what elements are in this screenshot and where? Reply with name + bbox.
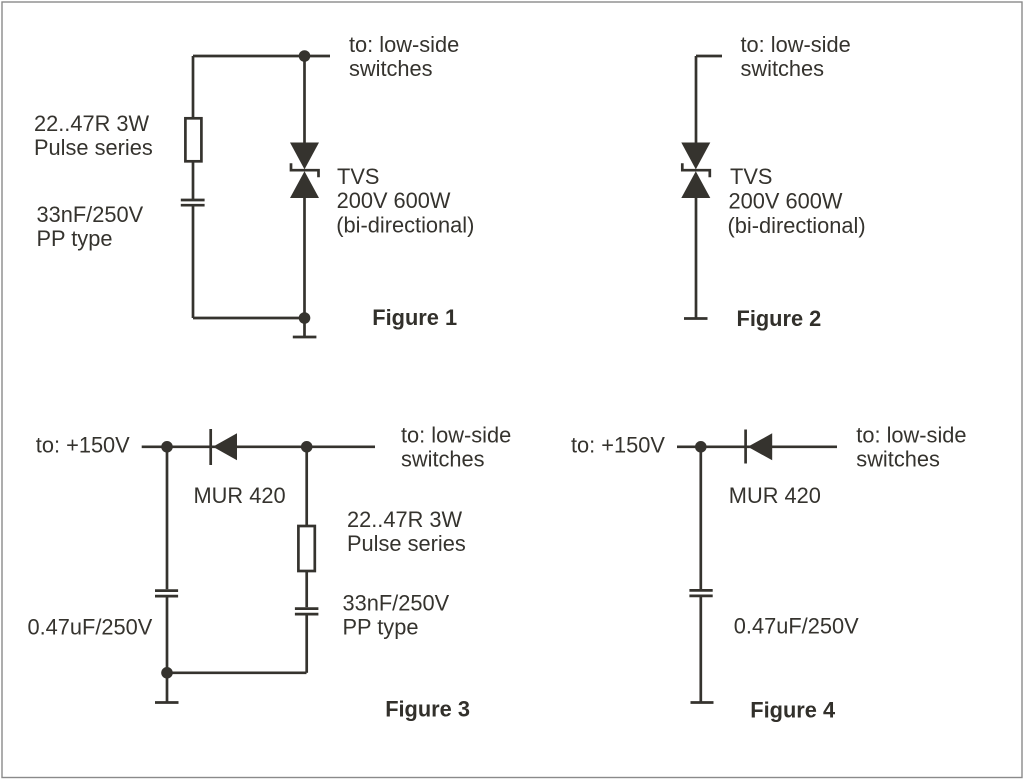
svg-text:TVS: TVS (337, 164, 379, 189)
node: Fig1 bottom junction (299, 312, 311, 324)
TVS D1 Z-bar (291, 163, 319, 177)
node: Fig4 junction (695, 441, 707, 453)
ground (Fig3) (155, 673, 179, 703)
wire: Fig2 TVS vertical bottom (695, 197, 698, 319)
svg-text:to: +150V: to: +150V (571, 432, 665, 457)
svg-text:Figure 2: Figure 2 (737, 306, 822, 331)
node: Fig3 right junction (301, 441, 313, 453)
wire: TVS branch vertical top (303, 56, 306, 144)
svg-text:switches: switches (856, 447, 940, 472)
wire: Fig1 bottom horizontal (193, 317, 305, 320)
svg-text:22..47R 3W: 22..47R 3W (34, 111, 150, 136)
wire: Fig1 left vertical (top) (192, 56, 195, 119)
svg-text:Figure 1: Figure 1 (372, 305, 457, 330)
capacitor 33nF/250V (Fig1) (181, 200, 205, 205)
TVS D1 top triangle (290, 143, 319, 170)
resistor 22..47R 3W (Fig1) (185, 118, 201, 161)
node: Fig1 top junction (299, 50, 311, 62)
capacitor 0.47uF/250V (Fig4) (689, 590, 712, 596)
TVS D1 bottom triangle (290, 171, 319, 198)
wire: capacitor to bottom wire (Fig3 right) (305, 615, 308, 672)
wire: TVS branch vertical bottom (303, 197, 306, 318)
svg-text:switches: switches (349, 56, 433, 81)
TVS D2 top triangle (681, 143, 710, 170)
wire: Fig4 main horizontal (677, 445, 837, 448)
svg-text:(bi-directional): (bi-directional) (728, 213, 866, 238)
svg-text:33nF/250V: 33nF/250V (343, 591, 450, 616)
ground (Fig2) (684, 317, 708, 320)
capacitor 0.47uF/250V (Fig3) (155, 591, 178, 597)
TVS D2 Z-bar (682, 163, 710, 177)
wire: resistor to capacitor (192, 161, 195, 199)
svg-text:to: low-side: to: low-side (401, 423, 511, 448)
svg-text:22..47R 3W: 22..47R 3W (347, 507, 463, 532)
wire: Fig3 right branch down (305, 447, 308, 526)
svg-text:to: low-side: to: low-side (741, 32, 851, 57)
svg-text:to: +150V: to: +150V (36, 432, 130, 457)
wire: capacitor to ground (Fig4) (699, 597, 702, 703)
svg-text:Figure 4: Figure 4 (750, 698, 835, 723)
svg-text:MUR 420: MUR 420 (729, 483, 821, 508)
wire: Fig2 top tick (696, 55, 722, 58)
svg-text:0.47uF/250V: 0.47uF/250V (734, 614, 859, 639)
diode MUR 420 (Fig3) cathode bar (209, 429, 212, 465)
wire: Fig2 TVS vertical top (695, 56, 698, 144)
svg-text:200V 600W: 200V 600W (729, 189, 843, 214)
wire: Fig1 top horizontal (193, 55, 330, 58)
svg-text:PP type: PP type (37, 226, 113, 251)
svg-text:(bi-directional): (bi-directional) (336, 213, 474, 238)
svg-text:0.47uF/250V: 0.47uF/250V (28, 615, 153, 640)
capacitor 33nF/250V (Fig3) (295, 609, 319, 615)
svg-text:to: low-side: to: low-side (349, 32, 459, 57)
diode MUR 420 (Fig4) triangle (748, 433, 772, 460)
node: Fig3 bottom junction (161, 667, 173, 679)
wire: Fig4 branch down (699, 447, 702, 589)
wire: Fig3 left branch down (166, 447, 169, 590)
svg-text:to: low-side: to: low-side (856, 423, 966, 448)
svg-text:200V 600W: 200V 600W (337, 188, 451, 213)
svg-text:TVS: TVS (730, 164, 772, 189)
ground (Fig4) (691, 701, 714, 704)
wire: resistor to capacitor (Fig3 right) (305, 571, 308, 607)
wire: Fig3 bottom horizontal (167, 671, 307, 674)
svg-text:Figure 3: Figure 3 (385, 696, 470, 721)
resistor 22..47R 3W (Fig3) (298, 526, 314, 571)
svg-text:Pulse series: Pulse series (347, 531, 466, 556)
svg-text:33nF/250V: 33nF/250V (37, 202, 144, 227)
wire: capacitor down to bottom (192, 207, 195, 319)
diode MUR 420 (Fig4) cathode bar (744, 430, 747, 464)
svg-text:switches: switches (401, 447, 485, 472)
wire: Fig3 main horizontal (142, 445, 375, 448)
svg-text:switches: switches (741, 56, 825, 81)
node: Fig3 +150V junction (161, 441, 173, 453)
svg-text:PP type: PP type (343, 615, 419, 640)
diode MUR 420 (Fig3) triangle (213, 433, 237, 460)
TVS D2 bottom triangle (681, 171, 710, 198)
svg-text:MUR 420: MUR 420 (194, 483, 286, 508)
svg-text:Pulse series: Pulse series (34, 135, 153, 160)
wire: capacitor to bottom node (166, 597, 169, 673)
ground (Fig1) (293, 318, 317, 337)
